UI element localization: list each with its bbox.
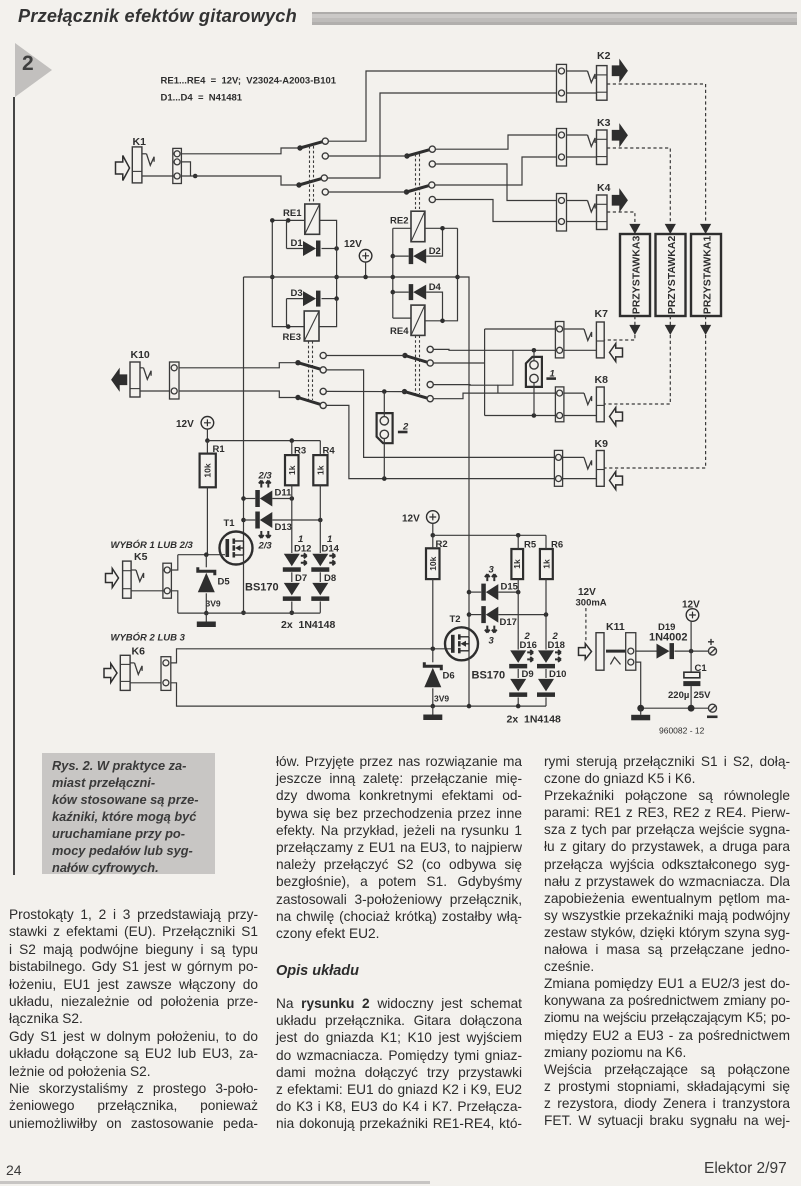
svg-text:D8: D8: [324, 573, 336, 584]
arrow out of przystawka1: [700, 325, 711, 335]
junction footswitch2 bottom: [382, 476, 387, 481]
svg-text:12V: 12V: [578, 587, 596, 598]
dashed wire K2 to przystawka1: [607, 84, 706, 222]
svg-text:RE4: RE4: [390, 326, 409, 337]
wire D19 to plus node: [675, 650, 710, 652]
contact RE1 b up: [321, 175, 327, 181]
junction RE2 right: [440, 226, 445, 231]
arrow into przystawka2: [665, 224, 676, 234]
text column 2 paragraph 2: [276, 995, 522, 1133]
wire K3 tip stub: [567, 134, 588, 136]
wire K1 sleeve to S1b common: [181, 176, 299, 185]
svg-text:R2: R2: [436, 539, 448, 550]
contact RE3 a up: [320, 352, 326, 358]
heading Opis ukladu: [276, 963, 359, 979]
supply 12V output: [682, 600, 700, 622]
wire D17 anode: [498, 614, 546, 616]
wire K1 sleeve stub: [142, 175, 173, 177]
wire RE4b down to K8 tip: [433, 393, 555, 399]
wire R-rail T2: [433, 534, 546, 536]
wire D4 anode: [426, 292, 442, 321]
wire C1 top lead: [690, 651, 692, 672]
svg-text:PRZYSTAWKA1: PRZYSTAWKA1: [702, 236, 714, 315]
connector K2 body: [597, 66, 608, 101]
diode D19: [657, 643, 675, 659]
wire K10 sleeve: [179, 391, 298, 398]
svg-text:3V9: 3V9: [434, 694, 449, 704]
svg-text:RE2: RE2: [390, 216, 408, 227]
wire K1 tip to S1a common: [181, 148, 300, 154]
junction bus RE1 left: [270, 218, 275, 223]
ground mark below minus terminal: [707, 715, 718, 718]
wire R2 top lead: [432, 535, 434, 548]
wire 12V output stub: [690, 621, 692, 651]
svg-text:BS170: BS170: [472, 670, 506, 682]
svg-text:RE3: RE3: [283, 332, 301, 343]
svg-text:2: 2: [552, 631, 559, 642]
wire RE4a up to K7 sleeve: [433, 348, 555, 351]
wire K5 sleeve to ground: [171, 591, 177, 613]
connector K2 contact block: [557, 64, 567, 102]
junction gate D5: [204, 552, 209, 557]
svg-text:220µ: 220µ: [668, 690, 689, 701]
diode D14: [311, 544, 339, 572]
contact RE1 b down: [322, 189, 328, 195]
wire K5 tip to gate: [171, 555, 177, 570]
wire R6 chain: [545, 579, 547, 650]
connector K1 tip contact: [147, 154, 155, 166]
wire 12V supply stub: [365, 262, 367, 277]
wire D12 to D7: [291, 572, 293, 582]
junction D3 cathode: [334, 296, 339, 301]
resistor R2 10k: [426, 539, 448, 579]
connector K11 center pin: [606, 650, 626, 653]
wire R5 chain: [517, 579, 519, 650]
svg-text:D12: D12: [294, 544, 311, 555]
wire footswitch2 top stub: [383, 392, 385, 417]
junction D6 ground: [431, 704, 436, 709]
junction D5 ground: [204, 611, 209, 616]
wire D4 cathode: [393, 291, 409, 293]
linkage RE3 contacts: [309, 341, 313, 400]
contact RE4 a down: [427, 360, 433, 366]
connector K10 plug arrow: [112, 370, 127, 390]
switch RE4 pole a: [402, 353, 428, 363]
junction bus rail left: [270, 275, 275, 280]
dashed wire przystawka1 to K9: [604, 335, 705, 468]
text column 2 paragraph 1: [276, 753, 522, 942]
contact RE3 b down: [320, 402, 326, 408]
wire R1 top lead: [206, 441, 208, 454]
svg-text:K2: K2: [597, 50, 611, 62]
diode D18: [537, 640, 565, 668]
diode D16: [509, 640, 537, 668]
dashed stub below przystawka1: [705, 316, 707, 325]
text column 3: [544, 753, 790, 1129]
wire D8 to ground rail: [319, 601, 321, 612]
connector K10 tip contact: [144, 368, 152, 380]
figure caption box: [42, 753, 215, 874]
dashed wire K3 to przystawka2: [607, 148, 670, 222]
dashed wire K4 to przystawka3: [607, 212, 635, 222]
wire D2 anode: [426, 228, 442, 256]
LED D13: [255, 512, 292, 552]
wire 12V relay rail: [244, 276, 458, 278]
junction D4 cathode: [391, 290, 396, 295]
supply 12V T1: [176, 417, 214, 431]
connector K5 tip contact: [136, 570, 144, 582]
svg-text:1k: 1k: [541, 559, 551, 569]
connector K5 body: [123, 561, 132, 598]
junction R4 D13: [318, 518, 323, 523]
wire RE3a up to RE4a common: [326, 355, 405, 357]
dashed stub below przystawka2: [669, 316, 671, 325]
wire K7 tip stub: [564, 328, 584, 330]
connector K4 contact block: [557, 194, 567, 232]
svg-text:D1...D4 = N41481: D1...D4 = N41481: [161, 93, 243, 104]
wire K11 sleeve down: [636, 662, 641, 708]
svg-text:D11: D11: [275, 488, 293, 499]
wire D3 anode: [287, 298, 304, 300]
junction minus C1: [688, 705, 695, 712]
wire RE2b up to K3 sleeve: [435, 157, 559, 185]
junction T2 source ground: [467, 704, 472, 709]
contact RE4 b down: [427, 396, 433, 402]
connector K1 contact block: [173, 148, 182, 183]
wire D7 to ground rail: [291, 601, 293, 612]
junction footswitch2 top: [382, 389, 387, 394]
wire to K7 tip: [485, 328, 556, 330]
wire K10 tip stub: [140, 367, 144, 369]
svg-text:R4: R4: [323, 446, 336, 457]
wire RE3b down to K9 sleeve: [326, 405, 554, 478]
wire K2 sleeve stub: [567, 92, 597, 94]
effect box PRZYSTAWKA1: [691, 234, 721, 316]
svg-text:K7: K7: [595, 308, 609, 320]
connector K6 plug arrow: [104, 664, 117, 683]
svg-text:12V: 12V: [402, 514, 420, 525]
wire R3 top lead: [291, 441, 293, 456]
circuit schematic SVG: [0, 0, 801, 760]
wire 12V T2 stub: [432, 523, 434, 535]
wire RE4 right: [425, 228, 458, 320]
transistor T2 BS170: [445, 614, 478, 660]
wire K4 tip stub: [567, 200, 588, 202]
diode D9: [509, 669, 533, 697]
connector K3 tip contact: [588, 135, 596, 147]
wire K4 sleeve stub: [567, 221, 597, 223]
wire K6 sleeve to T2 ground: [171, 683, 546, 706]
switch RE3 pole b: [295, 395, 321, 405]
footswitch socket 2: [377, 413, 409, 443]
diode D1: [291, 238, 321, 257]
wire T1 source: [243, 555, 245, 613]
svg-text:BS170: BS170: [245, 582, 279, 594]
wire D5 bottom lead: [205, 593, 207, 613]
contact RE3 a down: [320, 367, 326, 373]
diode D12: [283, 544, 312, 572]
connector K1 body: [132, 147, 142, 183]
svg-text:K9: K9: [595, 438, 609, 450]
wire ground stub T2: [432, 706, 434, 714]
svg-text:2x 1N4148: 2x 1N4148: [281, 619, 335, 631]
wire footswitch1 bottom stub: [533, 383, 535, 416]
wire D10 to ground rail: [545, 697, 547, 706]
svg-text:D6: D6: [443, 671, 455, 682]
junction R6 D17: [544, 612, 549, 617]
svg-text:D3: D3: [291, 288, 303, 299]
connector K7 body: [596, 322, 604, 358]
LED D11: [255, 471, 292, 508]
wire K7 tip drop to K8 sleeve: [484, 329, 486, 416]
junction K1 sleeve: [193, 174, 198, 179]
wire RE3a down to K9 tip: [326, 370, 554, 458]
wire R3 chain: [291, 485, 293, 553]
connector K8 contact block: [555, 387, 564, 422]
connector K8 plug arrow: [610, 408, 623, 426]
connector K4 tip contact: [588, 201, 596, 213]
wire D6 bottom lead: [432, 688, 434, 706]
resistor R1 10k: [200, 444, 226, 487]
left margin rule: [13, 97, 15, 875]
connector K2 tip contact: [588, 71, 596, 83]
wire D5 top lead: [205, 555, 207, 568]
svg-text:1k: 1k: [287, 465, 297, 475]
resistor R3 1k: [285, 446, 306, 486]
junction D11 cathode: [241, 496, 246, 501]
junction K8 sleeve to footswitch1: [532, 413, 537, 418]
relay coil RE3: [283, 311, 320, 343]
connector K8 body: [596, 387, 604, 422]
LED D15: [481, 565, 518, 601]
transistor T1 BS170: [220, 518, 253, 565]
wire D3 anode dropper: [286, 299, 288, 327]
svg-text:300mA: 300mA: [576, 598, 607, 609]
connector K9 plug arrow: [610, 472, 623, 490]
diode D2: [409, 246, 441, 264]
dashed wire przystawka2 to K8: [604, 335, 670, 404]
wire D11 cathode: [244, 498, 256, 500]
wire minus rail: [641, 707, 710, 709]
wire RE3 left bus: [272, 220, 304, 326]
arrow into przystawka3: [629, 224, 640, 234]
connector K5 plug arrow: [106, 569, 119, 588]
contact RE1 a down: [322, 153, 328, 159]
connector K5 contact block: [163, 563, 172, 598]
wire D17 cathode: [469, 614, 481, 616]
relay coil RE2: [390, 211, 425, 242]
junction plus node: [689, 649, 694, 654]
wire RE1b down to RE2b common: [328, 191, 406, 193]
junction R3 top: [290, 438, 295, 443]
connector K3 contact block: [557, 129, 567, 167]
switch RE3 pole a: [295, 360, 321, 369]
svg-text:K10: K10: [131, 349, 150, 361]
wire K5 sleeve stub: [131, 590, 163, 592]
footer page number: [6, 1162, 22, 1178]
connector K6 contact block: [161, 657, 171, 691]
footer magazine: [704, 1160, 787, 1178]
diode D3: [291, 288, 321, 307]
effect box PRZYSTAWKA2: [656, 234, 686, 316]
wire D14 to D8: [319, 572, 321, 582]
svg-text:D14: D14: [322, 544, 340, 555]
svg-text:T1: T1: [224, 518, 236, 529]
connector K4 body: [597, 195, 608, 230]
svg-text:T2: T2: [450, 614, 461, 625]
wire K11 to D19: [636, 650, 657, 652]
wire K6 tip stub: [130, 662, 134, 664]
wire K10 tip: [179, 363, 298, 368]
wire R2 bottom to gate: [432, 579, 434, 649]
svg-text:10k: 10k: [428, 556, 438, 570]
svg-text:D10: D10: [549, 669, 566, 680]
junction minus K11: [637, 705, 644, 712]
svg-text:2x 1N4148: 2x 1N4148: [507, 714, 561, 726]
wire RE4a down riser: [433, 362, 484, 364]
svg-text:3V9: 3V9: [206, 599, 221, 609]
svg-text:2: 2: [524, 631, 531, 642]
dashed wire przystawka3 to K7: [604, 335, 635, 340]
junction D1 cathode: [334, 246, 339, 251]
wire rail to T2 drain: [458, 277, 470, 637]
dashed stub below przystawka3: [634, 316, 636, 325]
linkage RE4 contacts: [416, 335, 420, 394]
diode D8: [311, 573, 336, 601]
svg-text:D17: D17: [500, 617, 517, 628]
wire D2 cathode: [393, 255, 409, 257]
wire RE3 right: [319, 299, 337, 327]
junction R5 top: [516, 533, 521, 538]
svg-text:PRZYSTAWKA2: PRZYSTAWKA2: [666, 236, 678, 315]
ground symbol T1: [197, 622, 216, 628]
ground symbol supply: [631, 715, 650, 721]
wire D3 cathode: [322, 298, 337, 300]
junction gate R2 D6: [431, 647, 436, 652]
resistor R6 1k: [540, 540, 563, 580]
switch RE4 pole b: [402, 389, 428, 398]
wire K9 sleeve stub: [563, 478, 597, 480]
effect box PRZYSTAWKA3: [620, 234, 650, 316]
wire D13 anode: [272, 519, 320, 521]
wire 12V T1 stub: [206, 429, 208, 441]
wire RE1b up to K2 sleeve: [327, 93, 558, 178]
footswitch socket 1: [526, 357, 556, 387]
linkage RE2 contacts: [416, 154, 420, 209]
wire K3 sleeve stub: [567, 156, 597, 158]
wire to K8 sleeve: [485, 415, 556, 417]
diode D10: [537, 669, 566, 697]
svg-text:12V: 12V: [176, 419, 194, 430]
power plug arrow: [579, 644, 592, 660]
svg-text:RE1...RE4 = 12V; V23024-A20: RE1...RE4 = 12V; V23024-A2003-B101: [161, 76, 337, 87]
wire D16 to D9: [517, 669, 519, 678]
junction R1 top: [205, 438, 210, 443]
wire footswitch1 top stub: [533, 350, 535, 360]
junction RE3 left D3: [286, 324, 291, 329]
contact RE4 a up: [427, 346, 433, 352]
svg-text:D2: D2: [429, 246, 441, 257]
wire RE4b up: [433, 384, 498, 387]
connector K9 body: [596, 451, 604, 487]
wire R4 top lead: [319, 441, 321, 456]
wire K8 tip stub: [564, 392, 584, 394]
relay coil RE4: [390, 305, 425, 337]
switch RE2 pole a: [404, 150, 430, 159]
wire RE1a up to K2 tip: [328, 71, 558, 141]
LED D17: [481, 606, 517, 646]
wire D6 top lead: [432, 649, 434, 663]
svg-text:K8: K8: [595, 374, 609, 386]
connector K11 body: [596, 633, 604, 671]
supply 12V T2: [402, 511, 439, 525]
wire D18 to D10: [545, 669, 547, 678]
wire ground stub T1: [205, 613, 207, 621]
chapter tab 2: [15, 43, 52, 97]
switch RE2 pole b: [404, 185, 430, 194]
junction D2 cathode: [391, 254, 396, 259]
bottom edge artifact: [0, 1181, 430, 1184]
svg-text:1: 1: [298, 534, 303, 545]
svg-text:D4: D4: [429, 282, 442, 293]
wire D15 cathode: [469, 591, 481, 593]
zener D6 3V9: [424, 662, 454, 703]
connector K3 plug arrow: [613, 126, 628, 146]
svg-text:2/3: 2/3: [258, 541, 273, 552]
wire K7 sleeve to K8 tip stepped: [498, 350, 513, 393]
connector K7 tip contact: [584, 329, 592, 341]
svg-text:R3: R3: [294, 446, 306, 457]
svg-text:K11: K11: [606, 621, 625, 633]
wire K2 tip stub: [567, 70, 588, 72]
svg-text:R1: R1: [213, 444, 226, 455]
svg-text:RE1: RE1: [283, 208, 302, 219]
wire R4 chain: [319, 485, 321, 553]
switch RE1 pole b: [296, 178, 322, 187]
terminal plus: [709, 647, 717, 655]
junction rail right bus: [455, 275, 460, 280]
svg-text:R6: R6: [551, 540, 563, 551]
wire RE2b down to K4 sleeve: [435, 200, 558, 222]
wire D9 to ground rail: [517, 697, 519, 706]
svg-text:K4: K4: [597, 182, 611, 194]
linkage RE1 contacts: [310, 146, 314, 202]
svg-text:3: 3: [489, 565, 495, 576]
wire T2 source: [468, 651, 470, 706]
junction rail 12V: [363, 275, 368, 280]
svg-text:PRZYSTAWKA3: PRZYSTAWKA3: [631, 236, 643, 315]
connector K7 contact block: [555, 322, 564, 358]
junction RE1 left D1: [286, 218, 291, 223]
connector K6 body: [120, 655, 130, 690]
connector K10 body: [130, 362, 140, 397]
svg-text:25V: 25V: [694, 690, 712, 701]
wire RE2 bus: [392, 228, 394, 318]
svg-text:D15: D15: [501, 582, 519, 593]
junction R5 D15: [516, 590, 521, 595]
wire RE4 left: [393, 317, 411, 319]
junction D13 cathode: [241, 518, 246, 523]
svg-text:1: 1: [327, 534, 332, 545]
arrow into przystawka1: [700, 224, 711, 234]
svg-text:K3: K3: [597, 117, 611, 129]
connector K6 tip contact: [135, 663, 143, 675]
wire RE1 right: [320, 220, 337, 298]
wire K9 tip stub: [563, 456, 584, 458]
dashed supply lead: [585, 608, 587, 642]
header bar: [312, 12, 797, 25]
wire R5 top lead: [517, 535, 519, 549]
